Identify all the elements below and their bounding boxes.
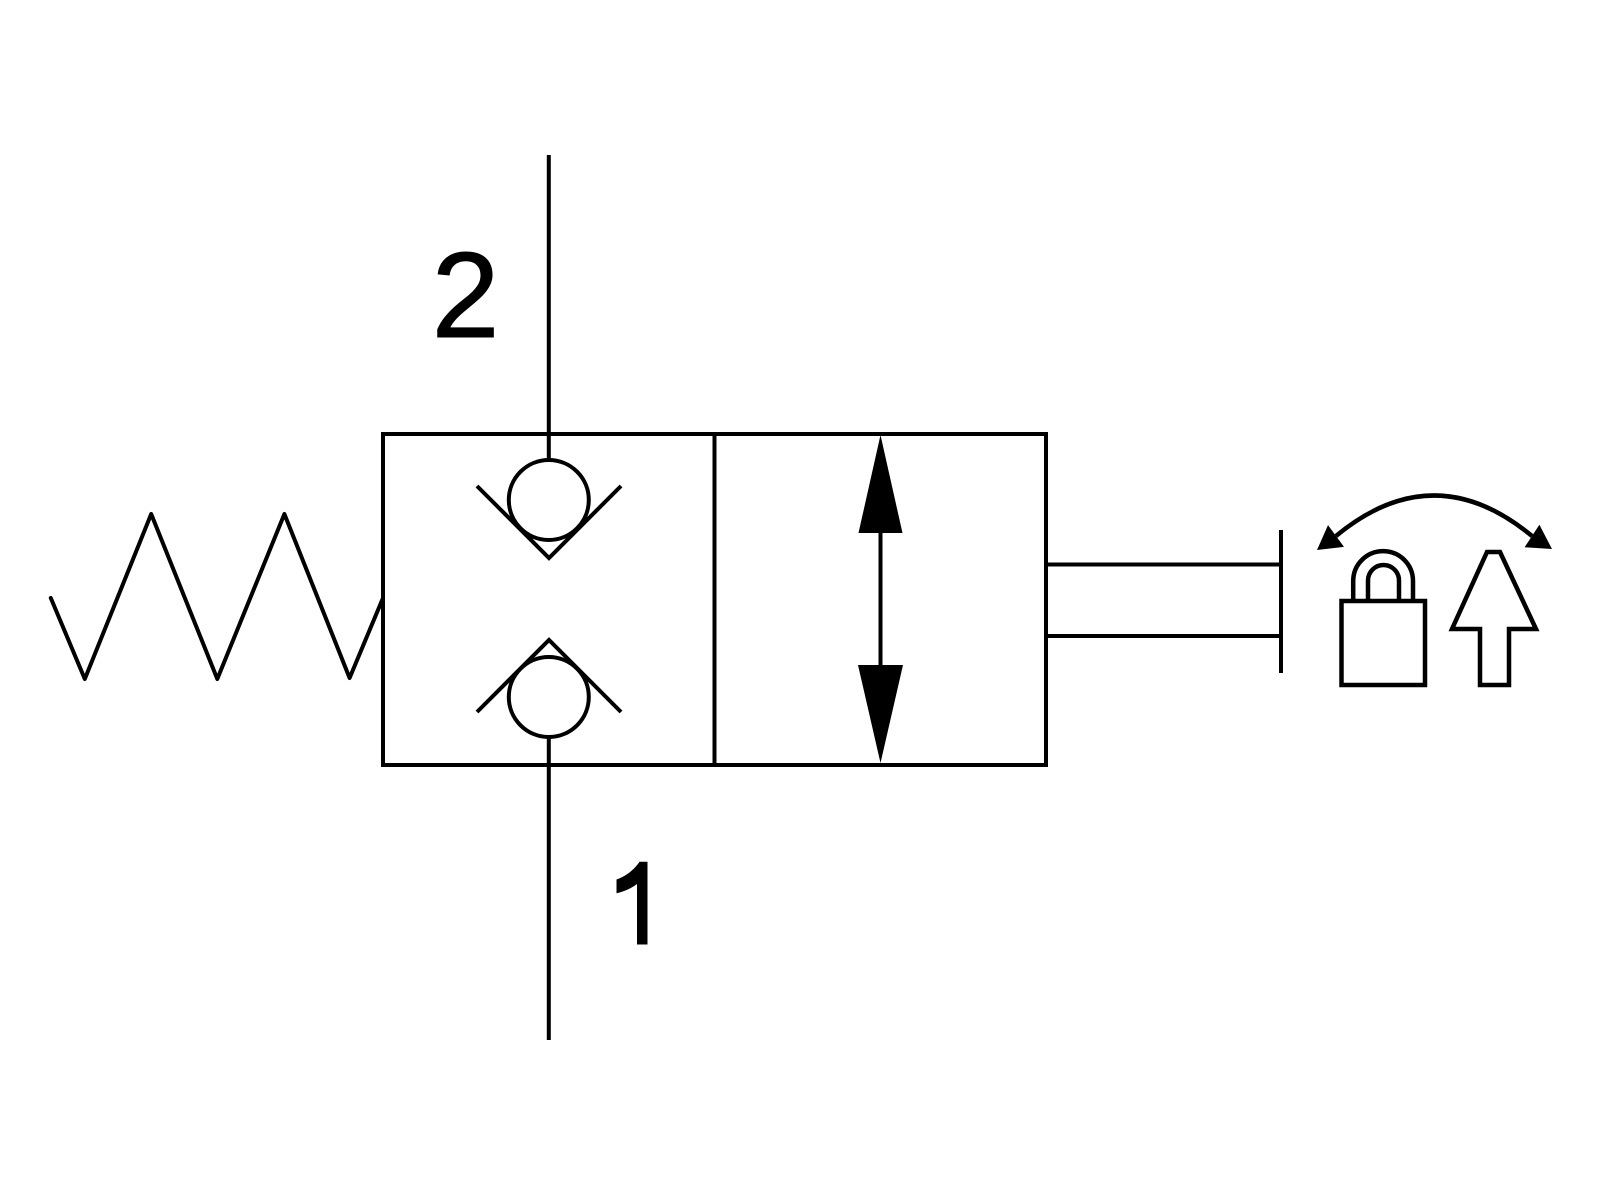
port 1 line: [547, 735, 551, 1040]
port 2 line: [547, 155, 551, 462]
check valve lower seat: [477, 640, 621, 712]
flow arrow head down: [858, 665, 903, 763]
spring (return spring, left): [51, 514, 383, 679]
detent arrow: [1452, 552, 1536, 685]
swivel arc head left: [1317, 525, 1344, 550]
valve body outline (two-position box): [383, 434, 1046, 765]
padlock shackle inner: [1368, 565, 1399, 601]
svg-text:2: 2: [432, 227, 500, 363]
actuator rod lower line: [1046, 634, 1281, 638]
check valve upper seat: [477, 486, 621, 558]
actuator rod upper line: [1046, 563, 1281, 567]
actuator end plate: [1279, 530, 1283, 673]
padlock shackle outer: [1353, 551, 1413, 601]
swivel arc: [1336, 496, 1532, 537]
check valve lower ball: [509, 657, 589, 737]
position divider: [713, 434, 717, 765]
port 1 label: [617, 862, 648, 945]
padlock body: [1342, 601, 1426, 685]
flow double arrow shaft: [879, 520, 883, 680]
swivel arc head right: [1525, 525, 1552, 549]
flow arrow head up: [859, 435, 903, 533]
check valve upper ball: [509, 460, 589, 540]
